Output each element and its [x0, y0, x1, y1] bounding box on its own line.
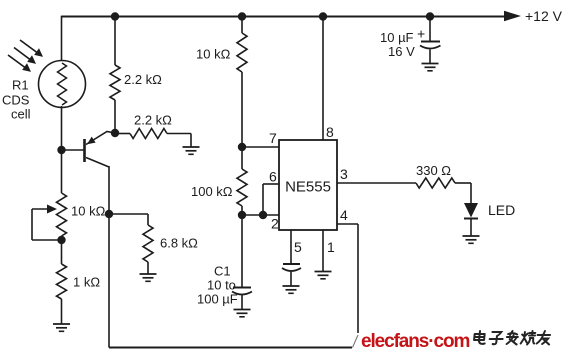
- node rail/pin8 junction: [319, 12, 327, 20]
- svg-text:10 kΩ: 10 kΩ: [71, 204, 106, 219]
- watermark CJK char shao: [521, 331, 536, 345]
- resistor 100 kOhm: [237, 147, 247, 215]
- watermark CJK char dian: [474, 331, 486, 344]
- label 10 uF 16 V: [380, 30, 415, 59]
- svg-text:2.2 kΩ: 2.2 kΩ: [124, 72, 162, 87]
- ground for 2.2 kOhm: [183, 147, 200, 154]
- ground for LED: [463, 236, 480, 243]
- wire base node down to pot: [61, 150, 63, 193]
- node rail/10uF junction: [426, 12, 434, 20]
- svg-text:100 µF: 100 µF: [197, 292, 238, 307]
- svg-text:2.2 kΩ: 2.2 kΩ: [134, 113, 172, 128]
- svg-text:10 to: 10 to: [207, 278, 236, 293]
- svg-text:330 Ω: 330 Ω: [416, 163, 451, 178]
- ground for pin 5 capacitor: [283, 286, 300, 293]
- node 100k/C1/pin2 junction: [238, 211, 246, 219]
- wire top +12V rail: [62, 16, 506, 18]
- wire pin 6: [263, 184, 279, 215]
- ground for C1: [234, 310, 251, 317]
- wire bottom rail corner to pin4 drop: [353, 335, 359, 348]
- svg-text:6: 6: [269, 169, 277, 185]
- node pot bottom junction: [57, 236, 65, 244]
- svg-text:2: 2: [271, 216, 279, 232]
- svg-text:LED: LED: [488, 202, 515, 218]
- resistor 2.2 kOhm horizontal: [115, 129, 191, 148]
- resistor 2.2 kOhm vertical: [110, 17, 120, 134]
- svg-text:4: 4: [340, 207, 348, 223]
- svg-text:R1: R1: [12, 78, 29, 93]
- wire collector down to bottom rail: [108, 166, 110, 348]
- svg-text:10 µF: 10 µF: [380, 30, 414, 45]
- wire pin 3: [337, 182, 416, 184]
- ground for 6.8 kOhm: [140, 274, 157, 281]
- capacitor C1: [232, 215, 252, 309]
- svg-text:1: 1: [327, 239, 335, 255]
- wire node to 6.8k resistor: [109, 214, 148, 225]
- svg-text:+12 V: +12 V: [525, 8, 563, 24]
- wire pin 2: [242, 214, 279, 216]
- ground for 10uF: [422, 64, 439, 71]
- ground for 1 kOhm: [53, 324, 70, 331]
- svg-text:CDS: CDS: [2, 93, 30, 108]
- pot wiper arrow: [32, 205, 62, 241]
- svg-text:10 kΩ: 10 kΩ: [196, 47, 231, 62]
- wire pin 1: [322, 230, 324, 272]
- wire CDS bottom to base node: [61, 106, 63, 150]
- node rail/2.2k junction: [111, 12, 119, 20]
- svg-text:1 kΩ: 1 kΩ: [73, 275, 100, 290]
- wire pin 7: [242, 146, 279, 148]
- svg-text:6.8 kΩ: 6.8 kΩ: [160, 236, 198, 251]
- node base junction: [57, 146, 65, 154]
- watermark CJK char fa: [506, 331, 518, 345]
- svg-text:8: 8: [326, 124, 334, 140]
- node emitter junction: [111, 129, 119, 137]
- photoresistor R1 CDS cell: [39, 61, 86, 108]
- label R1 CDS cell: [2, 78, 31, 122]
- transistor Q1 PNP: [62, 132, 116, 168]
- svg-text:100 kΩ: 100 kΩ: [191, 184, 233, 199]
- svg-text:7: 7: [269, 130, 277, 146]
- wire pin 4: [337, 224, 358, 333]
- light arrow 3: [8, 55, 31, 72]
- capacitor at pin 5: [282, 264, 301, 286]
- wire pin 5: [290, 230, 292, 264]
- svg-text:5: 5: [294, 239, 302, 255]
- svg-text:16 V: 16 V: [388, 44, 415, 59]
- resistor 330 Ohm: [416, 178, 471, 203]
- svg-text:cell: cell: [11, 107, 31, 122]
- node pin7/100k junction: [238, 143, 246, 151]
- svg-text:C1: C1: [214, 264, 231, 279]
- wire rail to CDS top: [61, 16, 63, 61]
- svg-text:+: +: [417, 26, 425, 42]
- light arrow 1: [20, 40, 43, 57]
- watermark CJK char zi: [489, 332, 503, 344]
- node rail/10k junction: [238, 12, 246, 20]
- diode LED: [464, 203, 478, 236]
- capacitor 10uF 16V: [420, 17, 441, 64]
- svg-text:3: 3: [340, 166, 348, 182]
- node pin6 drop junction: [259, 211, 267, 219]
- ground for pin 1: [315, 272, 332, 279]
- op-amp U1 NE555 box: [279, 140, 337, 230]
- resistor 6.8 kOhm: [143, 225, 153, 274]
- potentiometer 10 kOhm: [57, 193, 67, 240]
- node collector/6.8k junction: [105, 210, 113, 218]
- wire pin 8: [322, 17, 324, 141]
- svg-text:elecfans·com: elecfans·com: [361, 331, 469, 352]
- +12 V supply arrow: [504, 8, 563, 24]
- resistor 1 kOhm: [57, 240, 67, 324]
- label C1 10 to 100 uF: [197, 264, 238, 307]
- light arrow 2: [14, 48, 36, 64]
- svg-text:NE555: NE555: [285, 179, 331, 196]
- wire bottom rail: [109, 347, 352, 349]
- watermark CJK char you: [537, 331, 551, 345]
- resistor 10 kOhm top: [237, 17, 247, 148]
